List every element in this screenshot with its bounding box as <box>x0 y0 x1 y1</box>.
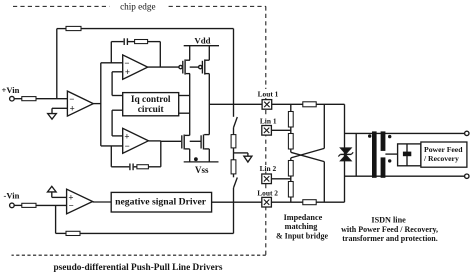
svg-text:Power Feed: Power Feed <box>424 145 463 154</box>
svg-text:Iq control: Iq control <box>131 95 171 105</box>
svg-text:−: − <box>69 94 74 104</box>
svg-text:Vss: Vss <box>195 165 209 175</box>
svg-text:matching: matching <box>285 222 319 231</box>
svg-text:transformer and protection.: transformer and protection. <box>342 234 437 243</box>
svg-text:+: + <box>125 67 130 77</box>
svg-text:circuit: circuit <box>138 105 165 115</box>
svg-text:+Vin: +Vin <box>2 85 20 95</box>
svg-text:with Power Feed / Recovery,: with Power Feed / Recovery, <box>341 225 438 234</box>
svg-text:Vdd: Vdd <box>194 36 210 46</box>
svg-text:Lin 1: Lin 1 <box>260 116 277 125</box>
svg-text:negative signal Driver: negative signal Driver <box>115 196 207 207</box>
svg-text:+: + <box>124 131 129 141</box>
svg-text:Lout 2: Lout 2 <box>257 188 278 197</box>
svg-text:/ Recovery: / Recovery <box>423 154 459 163</box>
svg-text:pseudo-differential Push-Pull: pseudo-differential Push-Pull Line Drive… <box>54 263 223 273</box>
svg-text:Lout 1: Lout 1 <box>258 90 279 99</box>
svg-text:Lin 2: Lin 2 <box>260 164 277 173</box>
svg-text:Impedance: Impedance <box>284 213 323 222</box>
svg-text:chip edge: chip edge <box>120 1 155 11</box>
svg-text:+: + <box>70 104 75 114</box>
svg-text:-Vin: -Vin <box>4 190 20 200</box>
svg-text:−: − <box>69 201 74 211</box>
svg-text:& Input bridge: & Input bridge <box>276 232 328 241</box>
svg-text:−: − <box>125 141 130 151</box>
svg-text:ISDN line: ISDN line <box>371 216 406 225</box>
